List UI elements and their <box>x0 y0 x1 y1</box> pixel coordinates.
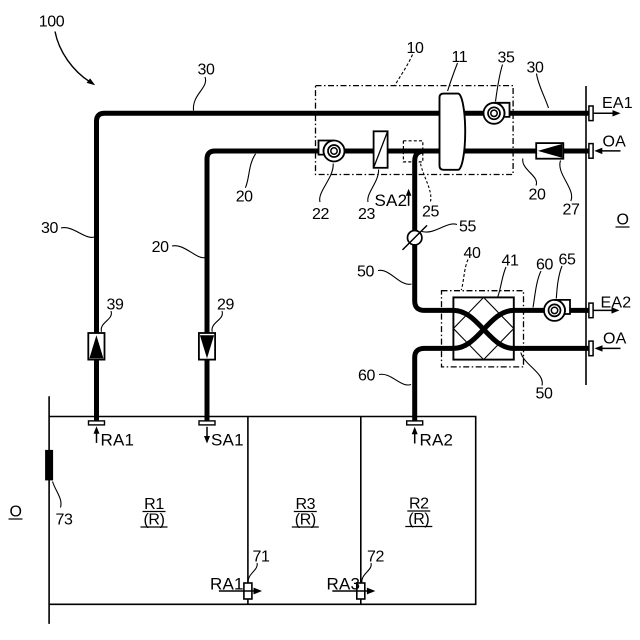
leader 20 (right) <box>523 159 537 186</box>
svg-text:O: O <box>617 212 630 229</box>
svg-text:EA1: EA1 <box>602 95 633 112</box>
svg-text:R2: R2 <box>409 496 429 513</box>
leader 23 <box>368 170 379 203</box>
svg-text:SA1: SA1 <box>211 431 244 450</box>
arrow RA3 transfer through 72 <box>332 590 368 592</box>
leader 10 <box>395 55 413 86</box>
svg-text:71: 71 <box>253 549 270 566</box>
leader 71 <box>248 563 257 582</box>
svg-text:60: 60 <box>536 257 553 274</box>
leader 50 (left) <box>378 270 412 284</box>
leader 50 (bottom) <box>521 353 542 386</box>
wall terminal OA (bottom) <box>589 341 593 356</box>
svg-text:25: 25 <box>422 204 439 221</box>
sensor 73 (black block on left wall) <box>45 450 53 481</box>
leader 20 (corner) <box>245 154 255 188</box>
leader 30 (top-right) <box>537 74 549 109</box>
fan 65 (EA2 exhaust fan) <box>544 300 565 321</box>
AHU enclosure box 10 (dash-dot) <box>316 86 514 175</box>
leader 60 (left) <box>379 374 411 385</box>
fan 22 (supply fan) <box>324 141 345 162</box>
arrow SA1 down <box>206 427 208 438</box>
svg-text:O: O <box>10 504 23 521</box>
heat-exchanger enclosure box 40 (dash-dot) <box>442 291 524 367</box>
leader 29 <box>212 311 222 332</box>
svg-text:30: 30 <box>41 220 58 237</box>
svg-text:41: 41 <box>502 253 519 270</box>
heat exchanger core 41 (square with diamond) <box>453 297 513 359</box>
svg-text:55: 55 <box>459 219 476 236</box>
transfer grille 71 on R1/R3 partition <box>244 583 252 599</box>
damper 29 (SA1 damper, triangle down) <box>199 333 215 360</box>
svg-text:39: 39 <box>107 297 124 314</box>
arrow RA2 up <box>414 433 416 444</box>
svg-text:20: 20 <box>152 239 169 256</box>
svg-text:50: 50 <box>357 264 374 281</box>
wall terminal EA2 <box>589 303 593 318</box>
arrow SA2 up <box>408 194 410 206</box>
valve 55 <box>408 231 422 245</box>
svg-text:RA2: RA2 <box>420 431 454 450</box>
arrow EA1 out <box>594 112 615 114</box>
leader 60 (right) <box>533 271 541 308</box>
wall terminal EA1 <box>589 106 593 121</box>
svg-text:100: 100 <box>39 14 65 31</box>
branch box 25 (dashed) <box>403 141 422 162</box>
svg-text:11: 11 <box>452 49 468 66</box>
svg-text:10: 10 <box>407 40 424 57</box>
reference arrow 100 (curved) <box>55 32 90 82</box>
partition wall between R1 and R3 <box>247 417 249 605</box>
svg-text:40: 40 <box>464 245 481 262</box>
svg-text:65: 65 <box>559 252 576 269</box>
svg-text:(R): (R) <box>408 511 429 528</box>
arrow OA in (bottom) <box>601 347 621 349</box>
svg-text:(R): (R) <box>143 512 164 529</box>
ceiling grille RA1 <box>89 421 105 425</box>
humidifier drum 11 <box>440 94 466 170</box>
svg-text:50: 50 <box>536 386 553 403</box>
leader 55 <box>422 224 457 232</box>
leader 22 <box>320 164 334 203</box>
svg-text:30: 30 <box>198 62 215 79</box>
svg-text:27: 27 <box>563 202 580 219</box>
arrow RA1 up <box>96 432 98 443</box>
svg-text:73: 73 <box>56 512 73 529</box>
svg-text:22: 22 <box>312 206 329 223</box>
wall terminal OA (top) <box>589 144 593 159</box>
wire: duct 60 (RA2 riser through exchanger to EA2) <box>415 310 591 421</box>
arrow RA1 transfer through 71 <box>219 590 255 592</box>
svg-text:35: 35 <box>498 50 515 67</box>
leader 25 <box>421 164 431 202</box>
svg-text:SA2: SA2 <box>375 191 408 210</box>
leader 20 (mid riser) <box>172 246 205 258</box>
room outline (top, right, bottom edges) <box>49 417 476 605</box>
leader 35 <box>496 65 503 102</box>
leader 30 (left riser) <box>61 228 95 238</box>
building left wall <box>48 396 50 624</box>
svg-text:OA: OA <box>603 330 627 347</box>
leader 39 <box>101 311 111 332</box>
leader 27 <box>560 161 572 202</box>
partition wall between R3 and R2 <box>360 417 362 605</box>
svg-text:72: 72 <box>367 549 384 566</box>
arrow OA in (top) <box>601 150 621 152</box>
wire: duct 30 (RA1 riser + EA1 header) <box>97 113 591 421</box>
svg-text:23: 23 <box>358 206 375 223</box>
svg-text:(R): (R) <box>295 512 316 529</box>
damper 39 (RA1 damper, triangle up) <box>88 333 104 360</box>
svg-text:RA3: RA3 <box>327 575 361 594</box>
svg-text:OA: OA <box>603 133 627 150</box>
svg-text:20: 20 <box>236 189 253 206</box>
svg-text:20: 20 <box>529 187 546 204</box>
ceiling grille SA1 <box>199 421 215 425</box>
svg-text:R1: R1 <box>144 496 164 513</box>
leader 40 <box>461 260 468 291</box>
svg-text:RA1: RA1 <box>101 431 135 450</box>
damper 27 (OA inlet damper) <box>536 143 563 159</box>
ceiling grille RA2 <box>407 421 423 425</box>
transfer grille 72 on R3/R2 partition <box>357 583 365 599</box>
leader 11 <box>448 63 458 91</box>
leader 65 <box>556 266 562 299</box>
fan 35 (EA1 exhaust fan) <box>484 103 505 124</box>
outdoor wall (right, vertical) <box>585 86 587 385</box>
svg-text:30: 30 <box>527 60 544 77</box>
svg-text:29: 29 <box>217 297 234 314</box>
arrow EA2 out <box>594 309 614 311</box>
svg-text:RA1: RA1 <box>210 575 244 594</box>
leader 30 (top header) <box>193 77 205 111</box>
svg-text:R3: R3 <box>295 496 315 513</box>
wire: duct 20 (SA1 riser + OA/SA header) <box>207 151 591 421</box>
leader 41 <box>498 267 506 297</box>
leader 73 <box>53 482 62 508</box>
svg-text:60: 60 <box>358 368 375 385</box>
leader 72 <box>362 563 371 582</box>
svg-text:EA2: EA2 <box>601 294 632 311</box>
filter 23 <box>374 131 388 168</box>
wire: duct 50 (OA intake through exchanger, up to SA2 branch) <box>415 151 591 348</box>
